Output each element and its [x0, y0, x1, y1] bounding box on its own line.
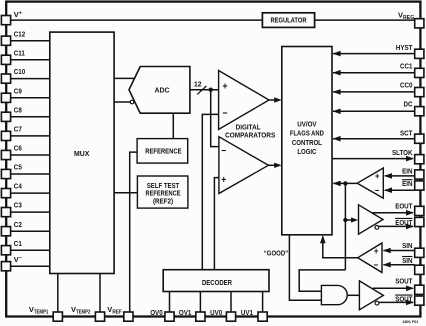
svg-text:(REF2): (REF2) [153, 197, 174, 205]
svg-text:C9: C9 [14, 86, 22, 95]
wire EIN node to EOUT buffer [345, 219, 352, 221]
pin SOUT [395, 277, 424, 295]
pin SCT [400, 128, 424, 143]
svg-text:SIN: SIN [402, 241, 412, 250]
svg-text:UV1: UV1 [241, 308, 253, 317]
pin V+ [1, 10, 21, 25]
pin SIN [402, 241, 424, 258]
wire CC1 [333, 72, 415, 74]
pin SIN-bar [402, 256, 424, 275]
bus slash [197, 86, 206, 94]
wire decoder to comparator 2 plus [214, 178, 219, 270]
pin C8 [1, 105, 21, 121]
svg-text:UV/OV: UV/OV [297, 120, 317, 128]
pin OV1 [179, 308, 205, 321]
pin C1 [1, 239, 21, 255]
svg-text:−: − [374, 260, 379, 271]
pin UV0 [210, 308, 235, 321]
decoder U-DEC [163, 270, 269, 292]
svg-text:CONTROL: CONTROL [292, 139, 323, 147]
wire C8 [11, 116, 50, 118]
regulator U-REG [262, 13, 314, 28]
wire EOUT [373, 212, 414, 214]
wire EIN-bar [385, 189, 415, 191]
svg-text:CC0: CC0 [400, 80, 413, 89]
wire DC [333, 110, 415, 112]
label digital comparators [225, 122, 275, 139]
pin V- [1, 255, 21, 271]
wire C9 [11, 97, 50, 99]
wire C6 [11, 154, 50, 156]
wire SLTOK [332, 158, 413, 160]
svg-text:6801 F01: 6801 F01 [402, 320, 418, 324]
wire V+ rail [11, 19, 262, 21]
wire decoder to OV1 [199, 292, 201, 312]
pin C3 [1, 201, 21, 217]
svg-text:12: 12 [194, 81, 202, 88]
svg-text:LOGIC: LOGIC [297, 148, 316, 156]
pin C2 [1, 220, 21, 236]
svg-text:C3: C3 [14, 201, 22, 210]
svg-text:“GOOD”: “GOOD” [264, 249, 289, 258]
svg-text:OV0: OV0 [150, 308, 163, 317]
svg-text:−: − [375, 185, 380, 196]
wire bus to comparator 2 minus [211, 90, 219, 147]
inverting bubble on ADC input 2 [130, 100, 134, 104]
pin C6 [1, 144, 21, 160]
wire EIN node to AND gate [299, 270, 345, 291]
svg-text:MUX: MUX [74, 149, 89, 158]
svg-text:C10: C10 [14, 67, 25, 76]
junction EOUT branch node [343, 218, 347, 222]
wire decoder to comparator 1 minus [202, 114, 218, 269]
wire decoder to UV0 [230, 292, 232, 312]
wire C7 [11, 135, 50, 137]
wire EIN node down [344, 183, 346, 270]
comparator A2 (UV) [219, 137, 269, 194]
wire EIN comparator output to logic [333, 182, 357, 184]
svg-text:DC: DC [404, 100, 413, 109]
wire HYST [333, 53, 415, 55]
svg-text:−: − [221, 145, 226, 157]
wire decoder to OV0 [169, 292, 171, 312]
wire SIN-bar [384, 264, 415, 266]
wire comparator A2 output [268, 164, 274, 166]
svg-text:CC1: CC1 [400, 61, 413, 70]
svg-text:SLTOK: SLTOK [392, 148, 413, 157]
svg-text:C1: C1 [14, 239, 22, 248]
wire decoder to UV1 [262, 292, 264, 312]
svg-text:SCT: SCT [400, 128, 413, 137]
svg-text:EOUT: EOUT [395, 218, 413, 227]
junction EIN node [343, 181, 347, 185]
wire MUX to ADC input 2 [114, 101, 130, 103]
wire regulator to VREG [315, 19, 415, 21]
mux U-MUX [50, 32, 114, 273]
svg-text:+: + [375, 171, 380, 182]
wire ADC to reference [172, 113, 174, 138]
wire EIN [385, 175, 415, 177]
wire MUX to VTEMP1 [57, 274, 59, 312]
svg-text:SOUT: SOUT [395, 295, 413, 304]
svg-text:C4: C4 [14, 182, 23, 191]
buffer EOUT [359, 205, 384, 234]
pin C4 [1, 182, 22, 198]
wire MUX to VTEMP2 [99, 274, 101, 312]
pin C5 [1, 163, 21, 179]
pin C11 [1, 48, 25, 64]
svg-text:C8: C8 [14, 105, 22, 114]
AND gate U-AND [321, 285, 347, 304]
pin VTEMP1 [29, 305, 63, 321]
wire C2 [11, 230, 50, 232]
wire MUX to self test reference [114, 192, 137, 194]
pin EIN [402, 167, 424, 180]
pin VREG [398, 10, 424, 28]
pin DC [404, 100, 424, 116]
wire SOUT-bar [379, 301, 413, 303]
pin VTEMP2 [71, 305, 105, 321]
svg-text:REFERENCE: REFERENCE [145, 148, 182, 156]
svg-text:C5: C5 [14, 163, 22, 172]
svg-text:C2: C2 [14, 220, 22, 229]
svg-text:HYST: HYST [396, 43, 413, 52]
pin C7 [1, 125, 21, 141]
wire C12 [11, 40, 50, 42]
pin C9 [1, 86, 21, 102]
wire SOUT [373, 287, 413, 289]
wire SCT [333, 138, 415, 140]
svg-text:C11: C11 [14, 48, 25, 57]
pin EOUT-bar [395, 217, 424, 226]
pin CC0 [400, 80, 424, 96]
wire MUX to ADC input 1 [114, 77, 135, 79]
svg-text:EIN: EIN [402, 167, 412, 176]
wire comparator A1 output [269, 99, 275, 101]
wire CC0 [333, 91, 415, 93]
svg-text:DECODER: DECODER [202, 278, 233, 287]
svg-text:C6: C6 [14, 144, 22, 153]
buffer SOUT [359, 281, 383, 310]
pin OV0 [150, 308, 174, 321]
wire C11 [11, 59, 50, 61]
svg-text:C12: C12 [14, 29, 25, 38]
svg-text:REGULATOR: REGULATOR [270, 16, 307, 25]
comparator SIN [358, 243, 382, 273]
svg-text:SOUT: SOUT [395, 277, 413, 286]
wire C4 [11, 192, 50, 194]
svg-text:EIN: EIN [402, 179, 412, 188]
pin CC1 [400, 61, 424, 77]
pin EOUT [395, 201, 424, 215]
wire V- [11, 265, 50, 267]
self test reference U-STREF [137, 176, 188, 208]
svg-text:OV1: OV1 [179, 308, 192, 317]
wire SIN comparator output to logic [323, 236, 358, 258]
pin UV1 [241, 308, 267, 321]
wire C3 [11, 211, 50, 213]
pin SLTOK [392, 148, 424, 164]
pin VREF [107, 305, 133, 321]
wire C1 [11, 249, 50, 251]
wire GOOD [289, 235, 321, 300]
pin SOUT-bar [395, 295, 424, 306]
ADC U-ADC [129, 67, 190, 114]
reference U-REF [137, 139, 188, 164]
comparator EIN [357, 168, 383, 198]
pin C12 [1, 29, 25, 45]
wire ADC output bus [190, 89, 219, 91]
wire AND to SOUT buffer [347, 294, 359, 296]
svg-text:UV0: UV0 [210, 308, 222, 317]
pin C10 [1, 67, 25, 83]
svg-text:−: − [223, 108, 228, 120]
svg-text:ADC: ADC [155, 86, 171, 95]
wire SIN [384, 250, 415, 252]
svg-text:C7: C7 [14, 125, 22, 134]
wire C5 [11, 173, 50, 175]
junction bus node [209, 88, 213, 92]
pin EIN-bar [402, 179, 424, 190]
svg-text:+: + [223, 80, 228, 92]
wire reference to VREF pin [130, 152, 137, 312]
svg-text:+: + [221, 174, 226, 186]
svg-text:+: + [374, 246, 379, 257]
UV OV flags and control logic U-LOGIC [282, 47, 332, 235]
svg-text:FLAGS AND: FLAGS AND [290, 130, 324, 138]
svg-text:COMPARATORS: COMPARATORS [225, 131, 275, 140]
svg-text:SIN: SIN [402, 256, 412, 265]
comparator A1 (OV) [219, 71, 269, 130]
wire EOUT-bar [379, 225, 413, 227]
svg-text:EOUT: EOUT [395, 201, 413, 210]
wire C10 [11, 78, 50, 80]
pin HYST [396, 43, 424, 59]
